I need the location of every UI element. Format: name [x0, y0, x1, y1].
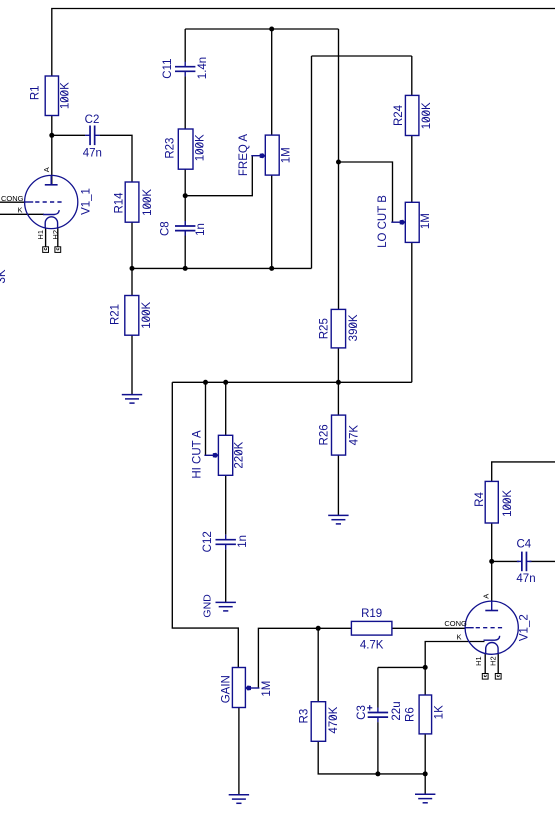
svg-text:V1_1: V1_1 [81, 188, 93, 215]
label value 1n (C8) [195, 223, 207, 236]
svg-text:100K: 100K [194, 134, 206, 161]
wire cathode node branch to C3 column [378, 666, 425, 668]
wire V1_1 grid from left edge [0, 201, 25, 203]
resistor R25 [331, 309, 345, 348]
label designator R14 [113, 192, 125, 214]
junction V1_2 anode / C4 node [489, 559, 494, 564]
wire V1_2 heater pin H2 [497, 654, 499, 674]
svg-text:H1: H1 [36, 230, 45, 240]
pin terminal V1_1 H2 terminal [55, 247, 61, 253]
svg-text:K: K [17, 206, 22, 215]
resistor R21 [125, 296, 139, 336]
label value 1M (FREQ A) [280, 147, 292, 163]
label value 390K (R25) [348, 314, 360, 341]
label value 470K (R3) [328, 706, 340, 733]
label value 1M (GAIN) [261, 681, 273, 697]
svg-text:R19: R19 [361, 608, 382, 620]
junction bus B / R25-R26 [336, 380, 341, 385]
wire R25 bottom to R26 top [337, 348, 339, 415]
svg-text:220K: 220K [233, 441, 245, 468]
label pin name CONG (V1_1) [1, 194, 24, 203]
label designator R26 [319, 424, 331, 445]
wire R6 bottom to ground [424, 734, 426, 794]
label pin name H1 (V1_2) [474, 656, 483, 666]
label value 100K (R21) [141, 302, 153, 329]
resistor R26 [332, 415, 346, 455]
label value 100K (R23) [194, 134, 206, 161]
label designator R6 [404, 707, 416, 722]
capacitor C2 [85, 126, 100, 146]
label designator GAIN [221, 675, 233, 703]
label pin name H2 (V1_1) [51, 230, 60, 240]
wire rail y56 [312, 55, 412, 57]
svg-text:HI CUT A: HI CUT A [191, 430, 203, 479]
svg-text:1.4n: 1.4n [197, 57, 209, 79]
label designator HI CUT A [191, 430, 203, 479]
wire C12 bottom to ground [225, 549, 227, 602]
svg-text:K: K [456, 633, 461, 642]
ground under R21 [122, 395, 142, 404]
junction x338 / LO CUT B wiper [336, 160, 341, 165]
svg-text:1n: 1n [195, 223, 207, 236]
label pin name CONG (V1_2) [444, 619, 467, 628]
ground GND net under C12 [216, 602, 236, 611]
svg-text:C2: C2 [85, 114, 100, 126]
svg-text:H2: H2 [489, 656, 498, 666]
potentiometer LO CUT B [391, 202, 419, 242]
svg-text:100K: 100K [60, 82, 72, 109]
label designator C3 [356, 705, 368, 720]
triode tube V1_1 [25, 175, 78, 228]
junction R23/C8/wiper node [183, 193, 188, 198]
svg-text:1n: 1n [237, 535, 249, 548]
wire node down to R3 top [317, 628, 319, 701]
label value 22u (C3) [391, 701, 403, 720]
junction R1/C2 node [49, 133, 54, 138]
label designator R23 [164, 138, 176, 159]
label value 1K (R6) [434, 705, 446, 719]
svg-text:R26: R26 [319, 424, 331, 445]
label designator V1_2 [519, 614, 531, 641]
ground under GAIN [229, 795, 249, 804]
junction bus A / FREQ A [269, 266, 274, 271]
wire C3 bottom to bottom bus [377, 722, 379, 774]
wire V1_1 heater pin H2 [57, 228, 59, 246]
wire C8 bottom to bus A [184, 231, 186, 269]
label value 47n (C4) [516, 573, 535, 585]
wire node to FREQ A wiper [185, 156, 252, 196]
svg-text:1M: 1M [280, 147, 292, 163]
wire V1_1 heater pin H1 [45, 228, 47, 246]
svg-text:C11: C11 [162, 58, 174, 78]
label designator R21 [110, 304, 122, 325]
svg-text:V1_2: V1_2 [519, 614, 531, 641]
wire bus B to HI CUT A top [225, 382, 227, 435]
wire HI CUT A bottom to C12 top [225, 475, 227, 534]
label pin name K (V1_2) [456, 633, 461, 642]
wire R4 bottom to V1_2 anode [491, 523, 493, 601]
pin terminal V1_2 H1 terminal [482, 674, 488, 680]
label value 100K (R24) [421, 102, 433, 129]
wire V1_2 cathode branch down to C3 [377, 667, 379, 707]
label designator V1_1 [81, 188, 93, 215]
label value 1.4n (C11) [197, 57, 209, 79]
svg-text:R6: R6 [404, 707, 416, 722]
wire node to R19 left [318, 627, 351, 629]
ground under R6 [415, 794, 435, 803]
wire rail y56 to R24 top [411, 56, 413, 95]
capacitor C3 [367, 705, 388, 722]
wire bus A horizontal [132, 267, 312, 269]
label designator C2 [85, 114, 100, 126]
label designator FREQ A [238, 134, 250, 177]
label designator C11 [162, 58, 174, 78]
resistor R6 [419, 695, 432, 734]
resistor R3 [311, 702, 325, 742]
svg-text:CONG: CONG [1, 194, 24, 203]
svg-text:22u: 22u [391, 701, 403, 720]
svg-text:47n: 47n [83, 148, 102, 160]
label designator R24 [393, 104, 405, 126]
wire anode node to C4 left [492, 560, 519, 562]
svg-text:R23: R23 [164, 138, 176, 159]
svg-text:CONG: CONG [444, 619, 467, 628]
svg-text:R1: R1 [30, 85, 42, 100]
label value 1M (LO CUT B) [420, 213, 432, 229]
junction bus B / HI CUT A top [223, 380, 228, 385]
svg-text:R24: R24 [393, 104, 405, 126]
label value 100K (R1) [60, 82, 72, 109]
ground under R26 [328, 515, 348, 524]
wire C11 top stub to rail [184, 29, 186, 62]
wire FREQ A bottom to bus A [271, 175, 273, 268]
wire R1 bottom to V1_1 anode [51, 116, 53, 186]
capacitor C12 [216, 535, 236, 550]
svg-text:C3: C3 [356, 705, 368, 720]
wire GAIN bottom to ground [238, 708, 240, 795]
label designator C4 [516, 539, 531, 551]
label pin name H1 (V1_1) [36, 230, 45, 240]
wire V1_1 cathode from left edge [0, 213, 44, 215]
svg-text:4.7K: 4.7K [360, 640, 384, 652]
label pin name A (V1_1) [42, 167, 51, 172]
svg-text:1M: 1M [261, 681, 273, 697]
wire R19 right to V1_2 grid [392, 627, 466, 629]
wire C4 right to right edge [529, 560, 555, 562]
label designator LO CUT B [377, 195, 389, 248]
svg-text:C8: C8 [159, 221, 171, 236]
wire V1_2 heater pin H1 [484, 654, 486, 674]
svg-text:R21: R21 [110, 304, 122, 325]
pin terminal V1_1 H1 terminal [43, 247, 49, 253]
wire bus A to R21 top [131, 268, 133, 295]
resistor R24 [405, 95, 419, 135]
resistor R4 [485, 481, 498, 523]
potentiometer FREQ A [251, 135, 279, 175]
label clipped value 3K at left edge [0, 269, 8, 283]
svg-text:390K: 390K [348, 314, 360, 341]
svg-text:FREQ A: FREQ A [238, 134, 250, 177]
wire R21 bottom to ground [131, 335, 133, 394]
wire node to LO CUT B wiper [339, 162, 393, 222]
wire R14 bottom to bus A [131, 222, 133, 268]
capacitor C11 [175, 62, 195, 77]
wire R3 bottom to bottom bus [318, 741, 425, 774]
label pin name K (V1_1) [17, 206, 22, 215]
wire node to C2 left plate [52, 134, 85, 136]
wire rail y29 C11 to column [185, 28, 338, 30]
label value 47n (C2) [83, 148, 102, 160]
junction bottom bus / R6 [423, 771, 428, 776]
label pin name A (V1_2) [481, 594, 490, 599]
wire bus B to GAIN top [172, 382, 238, 667]
wire HT rail from R1 top to right edge [52, 9, 555, 77]
resistor R19 [351, 621, 392, 635]
label value 100K (R4) [502, 490, 514, 517]
wire R4 top to right edge [492, 462, 555, 482]
svg-text:1M: 1M [420, 213, 432, 229]
svg-text:3K: 3K [0, 269, 8, 283]
wire rail y29 to FREQ A top [271, 29, 273, 135]
junction bus B / HI CUT A wiper [203, 380, 208, 385]
label value 220K (HI CUT A) [233, 441, 245, 468]
label designator R19 [361, 608, 382, 620]
svg-text:A: A [481, 594, 490, 599]
junction V1_2 cathode node [423, 665, 428, 670]
wire C11 bottom to R23 top [184, 76, 186, 129]
junction bus A / C8 [183, 266, 188, 271]
wire rail y56 down to bus A [311, 56, 313, 268]
triode tube V1_2 [465, 601, 518, 654]
junction bottom bus / C3 [375, 771, 380, 776]
label designator R1 [30, 85, 42, 100]
svg-text:R3: R3 [299, 709, 311, 724]
wire R23 bottom to C8 top [184, 169, 186, 226]
resistor R14 [125, 182, 139, 222]
label designator R4 [474, 492, 486, 507]
capacitor C8 [175, 221, 195, 236]
capacitor C4 [517, 552, 532, 572]
junction bus A / R14-R21 [130, 266, 135, 271]
svg-text:LO CUT B: LO CUT B [377, 195, 389, 248]
wire R24 bottom to LO CUT B top [411, 136, 413, 203]
svg-text:R4: R4 [474, 492, 486, 507]
potentiometer HI CUT A [204, 435, 232, 475]
resistor R1 [45, 76, 58, 116]
svg-text:R25: R25 [319, 318, 331, 339]
wire bus B horizontal [172, 381, 411, 383]
svg-text:GND: GND [202, 594, 214, 618]
wire LO CUT B bottom to bus B [411, 242, 413, 382]
svg-text:C12: C12 [202, 531, 214, 552]
label value 47K (R26) [348, 425, 360, 446]
label value 4.7K (R19) [360, 640, 384, 652]
svg-text:GAIN: GAIN [221, 675, 233, 703]
label designator C8 [159, 221, 171, 236]
label value 100K (R14) [142, 189, 154, 216]
label pin name H2 (V1_2) [489, 656, 498, 666]
svg-text:1K: 1K [434, 705, 446, 719]
wire R26 bottom to ground [337, 455, 339, 515]
svg-text:47K: 47K [348, 425, 360, 446]
wire C2 right plate to R14 top [100, 135, 132, 182]
svg-text:100K: 100K [142, 189, 154, 216]
wire bus B to HI CUT A wiper [205, 382, 207, 455]
potentiometer GAIN [232, 668, 259, 708]
label net label GND [202, 594, 214, 618]
label designator R25 [319, 318, 331, 339]
label value 1n (C12) [237, 535, 249, 548]
label designator R3 [299, 709, 311, 724]
label designator C12 [202, 531, 214, 552]
svg-text:100K: 100K [141, 302, 153, 329]
resistor R23 [178, 129, 193, 169]
wire V1_2 cathode to corner [425, 642, 484, 696]
svg-text:A: A [42, 167, 51, 172]
svg-text:100K: 100K [421, 102, 433, 129]
svg-text:H1: H1 [474, 656, 483, 666]
svg-text:100K: 100K [502, 490, 514, 517]
wire column x338 down to R25 [338, 29, 340, 309]
svg-text:R14: R14 [113, 192, 125, 214]
pin terminal V1_2 H2 terminal [495, 674, 501, 680]
svg-text:47n: 47n [516, 573, 535, 585]
svg-text:C4: C4 [516, 539, 531, 551]
svg-text:H2: H2 [51, 230, 60, 240]
junction R19/R3/GAIN-wiper node [316, 626, 321, 631]
svg-text:470K: 470K [328, 706, 340, 733]
junction rail y29 / FREQ A [269, 27, 274, 32]
wire GAIN wiper to R19 node [258, 628, 318, 688]
